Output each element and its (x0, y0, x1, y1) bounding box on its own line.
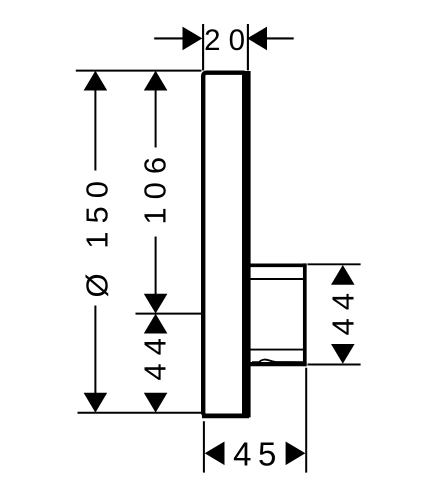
dim 106 line lower segment (155, 237, 157, 298)
dim 44 right arrow up (331, 265, 355, 285)
dim 44 right extension line top (308, 263, 361, 265)
dim 106 arrow up (144, 71, 168, 91)
body housing right edge (303, 263, 307, 366)
dim 150 arrow up (84, 71, 108, 91)
dim 150 line lower segment (94, 306, 96, 412)
dim 45 arrow left (205, 442, 225, 466)
mid extension line 106/44 boundary (136, 313, 203, 315)
svg-text:106: 106 (137, 149, 172, 225)
dim 20 leader line left (154, 37, 183, 39)
dim 44 left arrow down (144, 393, 168, 413)
dim 20 leader line right (267, 37, 294, 39)
svg-text:Ø 150: Ø 150 (80, 173, 115, 297)
dim 20 extension line left (202, 24, 204, 70)
svg-text:44: 44 (137, 330, 172, 380)
dim 45 extension line right (305, 368, 307, 473)
dim 20 arrow left (183, 27, 203, 51)
dim 20 arrow right (247, 27, 267, 51)
svg-text:45: 45 (233, 436, 283, 473)
body housing top edge (246, 263, 306, 267)
body inner line top (249, 278, 304, 280)
dim 106 line upper segment (155, 72, 157, 148)
dim 44 left arrow up (144, 314, 168, 334)
body housing bottom edge (246, 362, 306, 366)
body clip bump detail (252, 360, 303, 363)
body inner line bottom (249, 349, 304, 351)
svg-text:20: 20 (204, 24, 253, 57)
plate right edge thick face line (242, 71, 251, 417)
dim 44 right extension line bottom (308, 364, 361, 366)
dim 45 arrow right (286, 442, 306, 466)
dim 45 extension line left (203, 421, 205, 472)
dim 44 right arrow down (331, 344, 355, 364)
top extension line for 150/106 (76, 70, 202, 72)
dim 150 arrow down (84, 393, 108, 413)
plate outline (escutcheon side view) (203, 73, 246, 416)
plate bottom edge (202, 413, 249, 418)
dim 150 line upper segment (94, 72, 96, 171)
bottom extension line for 150/44 (78, 412, 202, 414)
dim 20 extension line right (247, 24, 249, 70)
svg-text:44: 44 (325, 285, 360, 335)
dim 106 arrow down (144, 294, 168, 314)
